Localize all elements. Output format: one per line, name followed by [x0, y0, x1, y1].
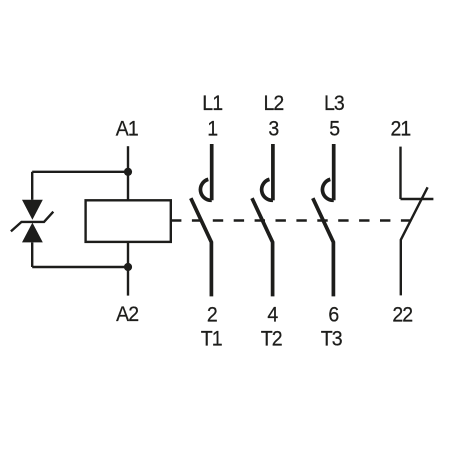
svg-text:L3: L3 — [324, 91, 344, 115]
svg-text:5: 5 — [329, 117, 339, 141]
svg-text:22: 22 — [392, 302, 412, 326]
svg-text:L1: L1 — [202, 91, 222, 115]
svg-text:6: 6 — [328, 302, 338, 326]
svg-text:4: 4 — [267, 302, 277, 326]
svg-text:T1: T1 — [201, 327, 222, 351]
svg-text:A1: A1 — [116, 116, 139, 140]
svg-text:21: 21 — [390, 117, 410, 141]
svg-text:1: 1 — [207, 117, 217, 141]
svg-text:T3: T3 — [321, 327, 342, 351]
svg-text:L2: L2 — [263, 91, 283, 115]
svg-text:3: 3 — [268, 117, 278, 141]
svg-text:T2: T2 — [261, 327, 282, 351]
svg-text:2: 2 — [207, 302, 217, 326]
svg-text:A2: A2 — [116, 302, 139, 326]
